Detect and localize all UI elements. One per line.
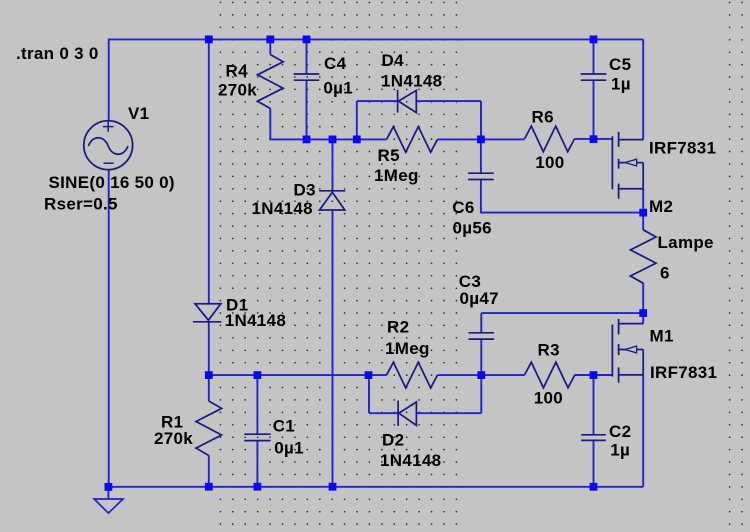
wire C1 top lead x=257.4 bbox=[256, 375, 258, 434]
wire R1 bottom lead bbox=[208, 455, 210, 486]
wire D2 right leg x=481.3 bbox=[480, 375, 482, 413]
svg-text:C6: C6 bbox=[452, 198, 474, 217]
junction bottom rail / C1 bbox=[254, 483, 262, 491]
wire C3 bottom lead bbox=[480, 339, 482, 375]
svg-text:1N4148: 1N4148 bbox=[381, 72, 442, 91]
svg-text:0µ56: 0µ56 bbox=[453, 218, 492, 237]
svg-text:IRF7831: IRF7831 bbox=[650, 363, 717, 382]
junction top rail / left column bbox=[205, 36, 213, 44]
wire top rail y=39 from V1 to top-right corner bbox=[109, 38, 644, 40]
junction node rail / D2 left bbox=[365, 371, 373, 379]
wire Lampe bottom lead bbox=[642, 283, 644, 313]
svg-text:1µ: 1µ bbox=[611, 74, 631, 93]
svg-text:C2: C2 bbox=[609, 422, 631, 441]
wire D2 bottom-right horizontal bbox=[416, 412, 481, 414]
junction top rail / C4 bbox=[303, 36, 311, 44]
wire D2 bottom-left horizontal bbox=[369, 412, 398, 414]
svg-text:Rser=0.5: Rser=0.5 bbox=[44, 195, 118, 214]
wire C5 bottom lead to R6/M2-gate node bbox=[593, 80, 595, 139]
wire M2 source to node y=212.6 bbox=[642, 189, 644, 213]
ground symbol bbox=[94, 499, 123, 513]
MOSFET M2 body arrow (points left) bbox=[619, 162, 644, 164]
junction bottom rail / R1 bbox=[205, 483, 213, 491]
wire node rail y=375 segment C (R3 to M1 gate) bbox=[575, 374, 613, 376]
resistor R4 body (vertical, 270k) bbox=[258, 55, 284, 109]
wire mid rail y=139 segment C (R6 to M2 gate) bbox=[575, 138, 613, 140]
wire V1 stem lower x=109 down to ground bbox=[108, 170, 110, 488]
svg-text:C5: C5 bbox=[609, 55, 631, 74]
capacitor C5 plates bbox=[581, 73, 607, 75]
wire Lampe top lead bbox=[642, 213, 644, 230]
svg-text:IRF7831: IRF7831 bbox=[649, 139, 716, 158]
junction mid rail / D4 right + C6 bbox=[477, 136, 485, 144]
junction mid rail / D4 left bbox=[353, 136, 361, 144]
svg-text:6: 6 bbox=[660, 264, 670, 283]
wire R4 top lead x=270 bbox=[269, 39, 271, 54]
svg-text:R2: R2 bbox=[387, 317, 409, 336]
junction M2 source / C6 rail / Lampe bbox=[639, 209, 647, 217]
wire V1 stem upper x=109 bbox=[108, 39, 110, 121]
svg-text:1N4148: 1N4148 bbox=[252, 199, 313, 218]
MOSFET M2 gate bar bbox=[611, 136, 613, 189]
wire R4 bottom lead + corner to y=139 rail bbox=[269, 109, 271, 140]
svg-text:1N4148: 1N4148 bbox=[380, 451, 441, 470]
wire D3/D2-column x=332.5 (rail y=139 to D3) bbox=[332, 139, 334, 191]
MOSFET M1 body arrow (points left) bbox=[619, 349, 644, 351]
svg-text:R4: R4 bbox=[226, 61, 249, 80]
diode D4 (pointing left) triangle and bar bbox=[398, 90, 416, 112]
svg-text:270k: 270k bbox=[154, 429, 193, 448]
junction node rail / left column + R1 bbox=[205, 371, 213, 379]
wire node rail y=375 segment B (R2 to R3) bbox=[438, 374, 525, 376]
V1 minus sign bbox=[104, 162, 114, 164]
svg-text:.tran 0 3 0: .tran 0 3 0 bbox=[16, 44, 99, 63]
svg-text:R3: R3 bbox=[538, 341, 560, 360]
svg-text:SINE(0 16 50 0): SINE(0 16 50 0) bbox=[49, 173, 175, 192]
wire bottom rail y=486.7 bbox=[108, 486, 643, 488]
svg-text:D3: D3 bbox=[294, 180, 316, 199]
svg-text:Lampe: Lampe bbox=[658, 233, 714, 252]
svg-text:0µ47: 0µ47 bbox=[460, 289, 499, 308]
wire C4 bottom lead bbox=[306, 81, 308, 140]
wire C6 bottom lead + corner bbox=[480, 180, 482, 214]
wire D4 top-left horizontal bbox=[357, 100, 398, 102]
svg-text:C4: C4 bbox=[324, 54, 347, 73]
svg-text:D4: D4 bbox=[382, 51, 405, 70]
svg-text:M1: M1 bbox=[650, 327, 674, 346]
MOSFET M1 drain horizontal bbox=[619, 323, 644, 325]
wire D4 top-right horizontal bbox=[416, 100, 481, 102]
MOSFET M1 gate bar bbox=[611, 325, 613, 377]
MOSFET M2 source horizontal and right vertical bbox=[619, 188, 644, 190]
svg-text:R5: R5 bbox=[378, 146, 400, 165]
voltage source V1 circle bbox=[84, 121, 133, 170]
resistor R6 body (horizontal, 100) bbox=[525, 126, 575, 152]
wire node rail y=375 segment A (x=209 node to R2) bbox=[209, 374, 387, 376]
wire D4 right leg x=481 bbox=[480, 101, 482, 139]
wire left column x=209 top segment (top rail to D1) bbox=[208, 39, 210, 303]
svg-text:100: 100 bbox=[534, 389, 563, 408]
MOSFET M1 channel segments bbox=[618, 319, 620, 335]
capacitor C2 plates bbox=[581, 434, 606, 436]
junction top rail / C5 bbox=[590, 36, 598, 44]
V1 sine squiggle bbox=[88, 138, 128, 155]
svg-text:1µ: 1µ bbox=[610, 440, 630, 459]
wire C6 top lead x=481 bbox=[480, 139, 482, 173]
V1 plus sign bbox=[103, 126, 114, 128]
junction mid rail / C5 + M2 gate bbox=[590, 135, 598, 143]
capacitor C6 plates bbox=[468, 172, 494, 174]
wire D4 left leg x=356.8 bbox=[356, 101, 358, 139]
MOSFET M1 source horizontal and right vertical bbox=[619, 374, 644, 376]
MOSFET M2 drain horizontal bbox=[619, 139, 644, 141]
diode D2 (pointing left) triangle and bar bbox=[399, 402, 417, 425]
resistor Lampe body (vertical, 6) bbox=[630, 230, 656, 283]
MOSFET M2 channel segments bbox=[618, 132, 620, 147]
wire y=212.6 rail (C6 to M2 source node) bbox=[481, 212, 643, 214]
svg-text:270k: 270k bbox=[218, 80, 257, 99]
diode D1 (pointing down) triangle and bar bbox=[195, 304, 221, 321]
wire M2 drain vertical x=643 (top rail to M2) bbox=[642, 39, 644, 139]
wire M1 drain vertical bbox=[642, 313, 644, 324]
svg-text:1N4148: 1N4148 bbox=[225, 311, 286, 330]
resistor R2 body (horizontal, 1Meg) bbox=[387, 362, 438, 388]
svg-text:1Meg: 1Meg bbox=[374, 166, 419, 185]
svg-text:D2: D2 bbox=[382, 430, 404, 449]
junction bottom rail / V1 + ground bbox=[105, 483, 113, 491]
wire C2 bottom lead bbox=[593, 440, 595, 486]
capacitor C1 plates bbox=[244, 433, 270, 435]
svg-text:R6: R6 bbox=[532, 107, 554, 126]
junction node rail / C3 + D2 right bbox=[477, 371, 485, 379]
svg-text:1Meg: 1Meg bbox=[385, 339, 430, 358]
wire D2 left leg x=369 bbox=[368, 375, 370, 413]
resistor R3 body (horizontal, 100) bbox=[525, 362, 575, 388]
capacitor C3 plates bbox=[469, 332, 495, 334]
svg-text:0µ1: 0µ1 bbox=[274, 438, 304, 457]
svg-text:M2: M2 bbox=[649, 197, 673, 216]
junction mid rail / C4 bbox=[303, 136, 311, 144]
resistor R5 body (horizontal, 1Meg) bbox=[387, 127, 438, 153]
junction top rail / R4 bbox=[266, 36, 274, 44]
svg-text:100: 100 bbox=[535, 153, 564, 172]
wire C4 top lead x=306.5 bbox=[306, 39, 308, 74]
svg-text:0µ1: 0µ1 bbox=[323, 79, 353, 98]
wire y=313 rail (C3 corner to Lampe/M1 node) bbox=[481, 312, 643, 314]
wire mid rail y=139 segment A (R4 corner to R5) bbox=[269, 138, 386, 140]
diode D3 (pointing up) triangle and bar bbox=[320, 192, 345, 210]
wire R1 top lead bbox=[208, 375, 210, 401]
wire M1 source down to bottom-right corner bbox=[642, 375, 644, 487]
wire x=332.5 from D3 down to bottom rail (crosses y=375 without junction) bbox=[332, 210, 334, 487]
junction bottom rail / D3 column bbox=[329, 483, 337, 491]
junction node rail / C2 + M1 gate bbox=[590, 371, 598, 379]
junction bottom rail / C2 bbox=[590, 483, 598, 491]
svg-text:V1: V1 bbox=[128, 104, 149, 123]
wire ground stem bbox=[107, 487, 109, 499]
wire C3 top lead x=481.3 bbox=[480, 313, 482, 333]
wire mid rail y=139 segment B (R5 to R6) bbox=[438, 138, 525, 140]
capacitor C4 plates bbox=[294, 73, 320, 75]
junction mid rail / D3 column bbox=[329, 136, 337, 144]
junction Lampe / C3 rail / M1 drain bbox=[639, 309, 647, 317]
junction node rail / C1 bbox=[254, 371, 262, 379]
wire C2 top lead x=593.5 bbox=[593, 375, 595, 435]
svg-text:C1: C1 bbox=[273, 416, 295, 435]
resistor R1 body (vertical, 270k) bbox=[196, 401, 222, 456]
wire left column x=209 (D1 to node row y=375) bbox=[208, 322, 210, 375]
wire C5 top lead x=593.5 bbox=[593, 39, 595, 74]
wire C1 bottom lead bbox=[256, 441, 258, 487]
